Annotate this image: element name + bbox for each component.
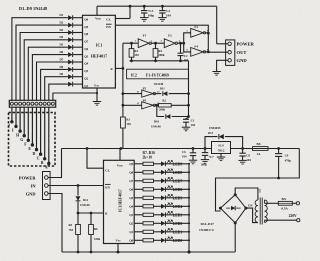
wire ground/return bottom rail [62,250,235,253]
ground (IC1 Vss) [93,101,101,103]
wire bridge minus to bottom rail [234,223,236,252]
wire +V top rail [97,6,228,44]
resistor R2 200k [154,99,188,112]
resistor R7 [134,162,161,165]
transformer T [255,190,267,225]
ac terminal top [296,202,299,205]
LED8 [161,169,190,175]
resistor R15 [134,230,161,233]
wire F3/F4 outputs join [204,32,228,54]
connector POWER/OUT/GND (top) [226,40,235,66]
wire touch pad 10 to diode row [49,84,66,101]
connector strip (touch panel header) [9,100,55,107]
LED3 [161,211,190,217]
resistor R1 1M [121,117,131,149]
bridge rectifier D14-D17 1N4001x4 [199,193,247,232]
touch pad I wire [15,107,17,126]
resistor R10 [134,188,161,191]
wire LED cathode bus [188,164,190,252]
resistor R5 7M [69,213,81,252]
capacitor C1 104 [183,118,196,128]
resistor R6 100k [89,213,101,252]
wire D11/R2/C1 right vertical [187,61,190,118]
wire touch pad 7 to diode row [37,62,67,101]
fuse BX 1A [253,142,269,156]
capacitor C4 104 [159,5,171,18]
node D [33,148,39,156]
wire F2 out to F3/F4 inputs [184,33,191,52]
node E [28,143,34,151]
wire touch pad 3 to diode row [20,33,66,101]
diode D6 1N4148 [60,50,83,57]
capacitor C9 470u [275,149,291,180]
resistor R12 [134,205,161,208]
wire F6 input [122,104,142,107]
wire IC1 EN to F3 output node [115,25,208,33]
op IC4 7812 regulator [212,142,231,158]
wire touch panel common to ground [53,93,97,101]
resistor R3 1M [129,43,139,57]
diode D7 1N4148 [60,57,83,64]
touch pad F wire [27,107,29,140]
diode D13 [205,131,243,149]
node I [12,125,18,133]
diode D10 1N4148 [151,104,189,128]
node J [8,120,14,128]
LED1 [161,228,190,234]
fuse BX 0.5A [265,197,297,211]
wire primary bottom [265,220,297,222]
IC3 right pin labels [129,162,133,243]
touch panel dashed box [9,113,56,167]
diode D4 1N4148 [60,35,83,42]
node G [20,134,26,142]
touch pad J wire [11,107,13,122]
diode D9 1N4148 [60,72,83,79]
touch pad H wire [19,107,21,131]
connector POWER/IN/GND (bottom) [43,172,51,200]
wire touch pad 8 to diode row [41,69,67,100]
wire bridge + return [216,149,300,212]
touch pad E wire [31,107,33,145]
diode D1 1N4148 [60,13,83,20]
wire IC1 R pin to node [115,67,124,70]
wire IN pin to IC3 EN [48,184,103,187]
resistor R9 [134,179,161,182]
wire GND pin to bottom rail [48,194,62,253]
resistor R14 [134,222,161,225]
wire touch pad 9 to diode row [45,77,66,101]
diode D8 1N4148 [60,65,83,72]
wire touch pad 1 to diode row [12,18,66,101]
LED5 [161,194,190,200]
capacitor C8 104 [239,149,251,163]
capacitor C3 100u [141,5,154,18]
ground (C6) [189,159,197,161]
capacitor C6 104 [182,149,196,161]
wire rail to POWER-in pin (bottom connector) [48,149,61,178]
wire F5 input [122,92,142,95]
diode D3 1N4148 [60,28,83,35]
touch pad B wire [44,107,46,159]
op-amp F5 (inverter) [137,87,161,98]
resistor R8 [134,171,161,174]
LED0 [161,237,190,243]
wire R3/R4/C2 bottom [130,59,189,62]
ground (C8) [238,159,246,161]
capacitor C7 100u [201,149,215,167]
resistor R11 [134,196,161,199]
op IC3 HEF4017 box [104,160,135,243]
label R7-R16 2k x10 [143,151,156,160]
IC1 left pin labels [84,17,88,87]
wire F2 out node [177,42,186,45]
wire IC1 CL to top rail [115,5,131,19]
wire F1 out to F2 in [151,42,165,45]
wire R4 bottom lead [155,57,157,61]
IC1 Vss lead [96,88,98,102]
node B [41,157,47,165]
wire reset node to IC3 R [77,212,104,215]
wire F1 input node [123,42,138,45]
ground (output connector) [212,71,220,73]
node A [45,162,51,170]
diode D11 1N4148 [154,87,188,96]
LED6 [161,186,190,192]
node F [24,139,30,147]
diode row 10 [66,82,82,87]
touch pad G wire [23,107,25,136]
touch pad D wire [36,107,38,149]
wire touch pad 5 to diode row [28,47,66,100]
diode D2 1N4148 [60,21,83,28]
ground (C4) [158,17,166,19]
resistor R13 [134,213,161,216]
op-amp F4 (inverter) [186,44,209,56]
LED7 [161,177,190,183]
wire touch pad 6 to diode row [32,55,66,101]
ac terminal bottom [297,219,300,222]
diode D12 1N4148 [76,186,91,214]
capacitor C2 103 [178,42,189,62]
LED9 [161,160,190,166]
diode D5 1N4148 [60,43,83,50]
op IC1 HEF4017 box [83,15,116,88]
wire rail to IC3 VDD [119,149,121,161]
wire bridge ac right to secondary bottom [246,208,258,223]
wire rail to IC3 CL [87,149,104,169]
wire touch pad 2 to diode row [16,25,66,101]
touch pad C wire [40,107,42,154]
resistor R16 [134,239,161,242]
wire +12V rail [62,147,300,150]
op-amp F3 (inverter) [186,25,209,37]
op-amp F2 (inverter) [161,34,181,48]
wire GND pin down [217,60,228,71]
resistor R4 200k [153,43,165,57]
op-amp F6 (inverter) [137,98,160,109]
ground (C3) [140,17,148,19]
node H [16,129,22,137]
wire bridge ac top to secondary [235,188,258,200]
LED4 [161,203,190,209]
wire left vertical net (F1 in / F5 in / F6 in / R1) [122,43,124,117]
op-amp F1 (inverter) [135,34,153,48]
touch pad A wire [48,107,50,163]
ground (C7) [201,159,209,161]
wire touch pad 4 to diode row [24,40,66,101]
ground (C1) [182,126,190,128]
IC3 Vss lead [117,244,120,254]
node C [37,153,43,161]
LED2 [161,220,190,226]
wire R3 bottom lead [131,57,133,61]
ground (IC4 common) [217,156,225,158]
box IC2 F1-F6 TC4069 [127,69,189,79]
